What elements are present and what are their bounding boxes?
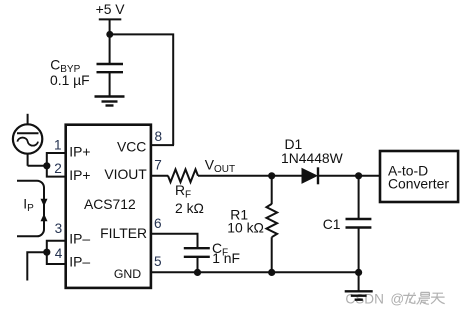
capacitor C_BYP	[97, 63, 124, 65]
svg-text:1: 1	[54, 137, 62, 152]
AC current source	[27, 114, 29, 124]
svg-text:IP+: IP+	[69, 167, 90, 183]
node junction CF gnd	[194, 269, 201, 276]
+5V supply label	[96, 1, 126, 17]
watermark CSDN	[345, 292, 444, 307]
node junction IP+	[43, 162, 50, 169]
svg-text:FILTER: FILTER	[100, 225, 147, 241]
node junction C1 gnd	[355, 269, 362, 276]
wire pin 6 FILTER	[151, 234, 198, 249]
svg-text:Converter: Converter	[388, 176, 449, 192]
svg-text:CSDN: CSDN	[345, 292, 384, 307]
svg-text:IP–: IP–	[69, 254, 90, 270]
resistor RF	[168, 169, 198, 182]
wire source to IP+ bracket	[28, 165, 47, 167]
resistor R1	[267, 204, 278, 237]
svg-text:6: 6	[154, 216, 162, 231]
label C_BYP 0.1uF	[50, 56, 90, 88]
label C1	[323, 216, 341, 232]
wire GND rail pin 5	[151, 271, 359, 273]
svg-text:VIOUT: VIOUT	[104, 166, 147, 182]
node VOUT label	[205, 156, 235, 175]
node junction C1 top	[355, 172, 362, 179]
capacitor C1	[346, 218, 372, 220]
capacitor CF	[184, 247, 210, 249]
IC U1 ACS712 body	[66, 125, 151, 288]
label IP	[23, 196, 34, 215]
svg-text:GND: GND	[114, 267, 141, 281]
svg-text:+5 V: +5 V	[96, 1, 126, 17]
wire R1 bottom	[271, 237, 273, 272]
wire VOUT	[198, 175, 302, 177]
wire diode to C1 node	[318, 175, 380, 177]
svg-text:1 nF: 1 nF	[212, 250, 240, 266]
wire +5V rail to VCC branch	[110, 34, 174, 145]
svg-text:3: 3	[55, 221, 63, 236]
wire +5V down to C_BYP	[109, 19, 111, 63]
svg-text:@: @	[390, 292, 404, 307]
current path loop IP	[17, 181, 44, 237]
arrow IP down	[41, 199, 48, 207]
arrow IP up	[41, 214, 48, 222]
wire pin 8 to +5V branch	[151, 144, 174, 146]
svg-text:IP+: IP+	[69, 144, 90, 160]
svg-text:ACS712: ACS712	[84, 196, 136, 212]
wire bracket pins 3-4	[47, 241, 66, 264]
label D1 1N4448W	[281, 136, 344, 166]
label CF 1nF	[212, 240, 240, 266]
wire pin 7 VIOUT	[151, 175, 168, 177]
wire to ground	[358, 272, 360, 291]
node junction R1 top	[268, 172, 275, 179]
svg-text:10 kΩ: 10 kΩ	[227, 220, 264, 236]
svg-text:1N4448W: 1N4448W	[281, 150, 344, 166]
ground (output)	[345, 290, 373, 292]
wire bracket pins 1-2	[47, 153, 66, 177]
diode D1	[302, 168, 319, 184]
ground (C_BYP)	[95, 95, 125, 97]
svg-text:2 kΩ: 2 kΩ	[175, 200, 204, 216]
+5V rail tick	[99, 18, 122, 20]
wire C1 top	[358, 176, 360, 219]
svg-text:IP–: IP–	[69, 231, 90, 247]
node junction R1 gnd	[268, 269, 275, 276]
svg-text:5: 5	[154, 254, 162, 269]
svg-text:2: 2	[54, 161, 62, 176]
svg-text:0.1 µF: 0.1 µF	[50, 72, 90, 88]
svg-text:C1: C1	[323, 216, 341, 232]
wire CF bottom	[197, 257, 199, 273]
node junction IP-	[43, 249, 50, 256]
wire R1 top	[271, 176, 273, 204]
A-to-D converter box	[380, 151, 458, 202]
wire C1 bottom	[358, 228, 360, 273]
node junction +5V	[106, 31, 113, 38]
label RF 2k	[175, 182, 204, 216]
svg-text:VCC: VCC	[117, 138, 146, 154]
label R1 10k	[227, 206, 264, 235]
svg-text:8: 8	[155, 129, 163, 144]
svg-text:7: 7	[154, 158, 162, 173]
svg-text:4: 4	[55, 246, 63, 261]
wire IP- return	[27, 252, 47, 280]
